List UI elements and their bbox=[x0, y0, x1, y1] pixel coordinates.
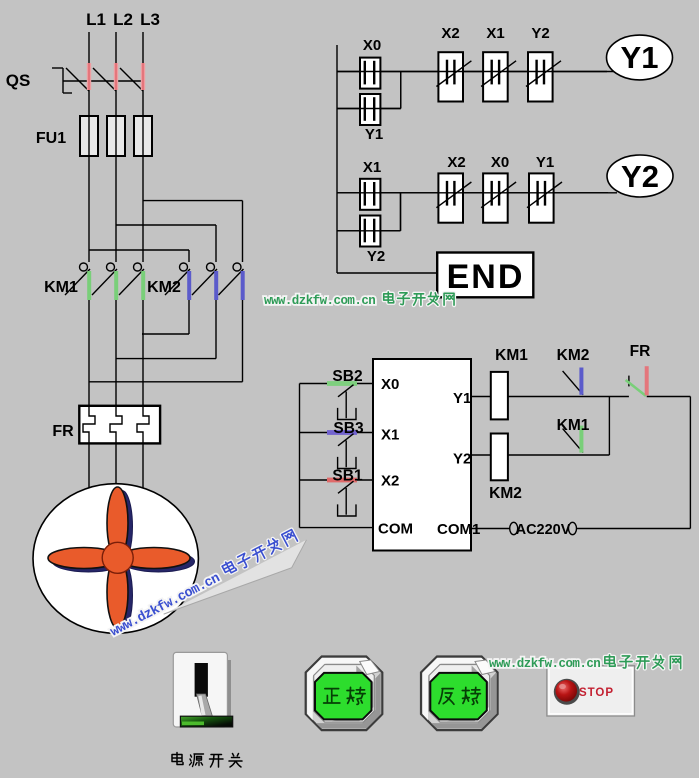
contact X2 NC bbox=[438, 52, 463, 101]
pushbutton SB1 bbox=[327, 478, 357, 483]
contactor KM1 main contacts bbox=[65, 263, 145, 300]
wire rung1 over contacts bbox=[337, 71, 607, 73]
contact Y1 (seal-in) bbox=[360, 94, 380, 125]
svg-text:X2: X2 bbox=[441, 25, 459, 42]
contact Y2 (seal-in) bbox=[360, 216, 380, 247]
watermark bottom right bbox=[489, 655, 681, 671]
coil KM2 bbox=[491, 434, 508, 481]
watermark diagonal on motor bbox=[107, 524, 315, 655]
svg-text:AC220V: AC220V bbox=[516, 522, 571, 538]
wire row2 bbox=[508, 454, 610, 456]
svg-text:KM1: KM1 bbox=[557, 417, 590, 434]
svg-text:X0: X0 bbox=[491, 154, 509, 171]
svg-text:Y2: Y2 bbox=[621, 159, 659, 194]
wire COM row bbox=[300, 527, 374, 529]
source AC220V bbox=[510, 522, 518, 534]
svg-text:X1: X1 bbox=[381, 427, 399, 444]
pushbutton SB2 bbox=[327, 381, 357, 386]
svg-text:X0: X0 bbox=[381, 376, 399, 393]
svg-text:KM1: KM1 bbox=[495, 347, 528, 364]
fuse FU1 bbox=[80, 116, 152, 156]
svg-text:QS: QS bbox=[6, 71, 31, 90]
label 电源开关 bbox=[172, 753, 242, 768]
svg-text:Y2: Y2 bbox=[531, 25, 549, 42]
ladder left rail bbox=[336, 45, 338, 273]
wire L1 drop bbox=[88, 32, 90, 262]
wire COM1 to source bbox=[471, 528, 510, 530]
wire jog L2 to KM2 pole2 bbox=[116, 224, 216, 226]
svg-text:KM2: KM2 bbox=[489, 485, 522, 502]
pushbutton SB3 bbox=[327, 430, 357, 435]
contact Y1 NC rung2 bbox=[529, 173, 554, 222]
stop button panel bbox=[547, 666, 635, 716]
svg-text:X1: X1 bbox=[486, 25, 504, 42]
svg-text:END: END bbox=[447, 258, 525, 296]
svg-text:STOP: STOP bbox=[579, 687, 614, 699]
wire FR to motor bbox=[88, 443, 90, 500]
wire L2 drop bbox=[115, 32, 117, 262]
svg-text:L3: L3 bbox=[140, 10, 160, 29]
wire PLC left rail bbox=[299, 384, 301, 528]
svg-text:KM2: KM2 bbox=[147, 279, 181, 296]
button 反转 (reverse) bbox=[421, 657, 498, 731]
svg-text:COM1: COM1 bbox=[437, 521, 480, 538]
contactor KM2 main contacts bbox=[165, 263, 245, 300]
END block bbox=[437, 253, 533, 298]
wire rung2 over contacts bbox=[337, 192, 608, 194]
svg-text:X2: X2 bbox=[447, 154, 465, 171]
svg-text:Y1: Y1 bbox=[536, 154, 554, 171]
coil KM1 bbox=[491, 372, 508, 420]
svg-text:Y1: Y1 bbox=[621, 40, 659, 75]
svg-text:www.dzkfw.com.cn: www.dzkfw.com.cn bbox=[264, 294, 375, 308]
wire rung2 branch bbox=[337, 230, 401, 232]
switch QS bbox=[52, 63, 145, 93]
wire KM2 pole1 return bbox=[188, 300, 190, 334]
wire right rail bbox=[689, 397, 691, 529]
wire jog L1 to KM2 pole1 bbox=[89, 249, 189, 251]
svg-text:KM2: KM2 bbox=[557, 347, 590, 364]
svg-text:FU1: FU1 bbox=[36, 130, 66, 147]
wire rung1 bbox=[337, 71, 614, 73]
wire KM2 pole2 return bbox=[215, 300, 217, 359]
wire rung1 branch bbox=[337, 108, 401, 110]
contact X1 bbox=[360, 179, 380, 210]
wire rung2 bbox=[337, 192, 617, 194]
watermark middle bbox=[264, 292, 454, 308]
contact KM1 NC bbox=[563, 429, 584, 453]
wire SB1 row bbox=[300, 479, 374, 481]
wire END rung bbox=[337, 272, 437, 274]
svg-text:X2: X2 bbox=[381, 473, 399, 490]
svg-text:KM1: KM1 bbox=[44, 279, 78, 296]
svg-text:COM: COM bbox=[378, 521, 413, 538]
contact X0 bbox=[360, 58, 380, 89]
contact KM2 NC bbox=[563, 371, 584, 395]
svg-text:L1: L1 bbox=[86, 10, 106, 29]
contact X0 NC rung2 bbox=[483, 173, 508, 222]
wire KM2 pole3 return bbox=[242, 300, 244, 382]
power switch icon bbox=[173, 652, 232, 727]
contact X2 NC rung2 bbox=[438, 173, 463, 222]
PLC box U1 bbox=[373, 359, 471, 551]
svg-text:SB3: SB3 bbox=[333, 420, 364, 437]
svg-text:Y2: Y2 bbox=[367, 248, 385, 265]
motor M (fan) bbox=[33, 484, 198, 634]
wire jog L3 to KM2 pole3 bbox=[143, 200, 243, 202]
svg-text:SB2: SB2 bbox=[332, 368, 362, 385]
wire KM1 poles down to FR bbox=[88, 300, 90, 406]
wire source to rail bbox=[577, 528, 691, 530]
wire L3 drop bbox=[142, 32, 144, 262]
svg-text:L2: L2 bbox=[113, 10, 133, 29]
wire row1 bbox=[508, 396, 629, 398]
svg-text:FR: FR bbox=[630, 343, 651, 360]
svg-text:X0: X0 bbox=[363, 37, 381, 54]
coil Y1 bbox=[607, 35, 673, 80]
svg-text:www.dzkfw.com.cn: www.dzkfw.com.cn bbox=[489, 657, 600, 671]
contact Y2 NC bbox=[528, 52, 553, 101]
svg-text:SB1: SB1 bbox=[332, 468, 363, 485]
thermal relay FR bbox=[79, 406, 160, 444]
wire SB3 row bbox=[300, 432, 374, 434]
wire SB2 row bbox=[300, 383, 374, 385]
svg-text:Y1: Y1 bbox=[453, 390, 471, 407]
wire Y2 out bbox=[471, 454, 491, 456]
svg-text:Y2: Y2 bbox=[453, 451, 471, 468]
contact FR NC bbox=[628, 376, 630, 387]
coil Y2 bbox=[607, 155, 673, 197]
wire junction drop bbox=[608, 397, 610, 456]
wire Y1 out bbox=[471, 396, 491, 398]
button 正转 (forward) bbox=[306, 657, 383, 731]
svg-text:X1: X1 bbox=[363, 159, 381, 176]
contact X1 NC bbox=[483, 52, 508, 101]
svg-text:Y1: Y1 bbox=[365, 126, 383, 143]
svg-text:FR: FR bbox=[52, 423, 74, 440]
